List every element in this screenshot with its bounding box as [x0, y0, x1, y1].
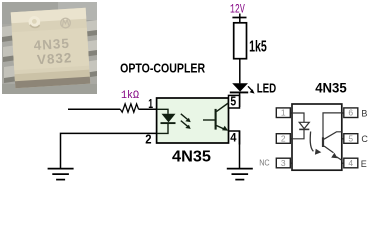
svg-text:OPTO-COUPLER: OPTO-COUPLER [120, 60, 205, 75]
dimple [28, 16, 40, 28]
right pins [82, 20, 97, 75]
phototransistor inside DIP [323, 113, 342, 138]
pin 2 box [276, 134, 290, 144]
svg-text:6: 6 [348, 108, 353, 118]
light arrow (curved) inside DIP [310, 132, 313, 152]
resistor R1 1k5 [234, 23, 247, 59]
LED inside opto [162, 114, 176, 123]
phototransistor inside opto [203, 119, 215, 121]
wire 12V to resistor [239, 14, 241, 24]
LED inside DIP [292, 113, 304, 122]
LED pointer arrow [248, 86, 252, 90]
svg-text:12V: 12V [230, 2, 245, 16]
pin 5 box [344, 134, 358, 144]
svg-text:1: 1 [281, 108, 286, 118]
svg-text:E: E [361, 159, 367, 169]
wire LED to pin 5 [239, 93, 241, 107]
svg-text:1k5: 1k5 [249, 39, 267, 56]
ground (left) [48, 168, 74, 170]
wire inside box pin1 to LED [157, 109, 168, 114]
svg-text:C: C [361, 134, 368, 144]
motorola logo [60, 18, 70, 28]
wire node in to resistor 1k [68, 108, 120, 110]
svg-text:3: 3 [281, 158, 286, 168]
pin 5 square [229, 95, 240, 108]
photo of 4N35 DIP package [2, 2, 97, 94]
power T-bar [232, 17, 246, 19]
pin 4 box [344, 158, 358, 168]
DIP package outline [292, 104, 342, 170]
svg-text:B: B [361, 109, 367, 119]
pin 3 box [276, 158, 290, 168]
wire pin2 to ground [61, 133, 157, 168]
pin 6 box [344, 108, 358, 118]
pin 1 box [276, 108, 290, 118]
wire resistor to pin 1 [139, 108, 157, 110]
svg-text:1kΩ: 1kΩ [121, 90, 139, 102]
wire pin4 to ground [239, 131, 241, 168]
svg-text:4N35: 4N35 [172, 148, 211, 165]
light arrows inside opto [181, 114, 188, 120]
chip body [11, 8, 90, 88]
left pins [2, 25, 18, 80]
LED D1 [232, 83, 248, 91]
svg-text:2: 2 [281, 134, 286, 144]
opto-coupler U1 4N35 symbol box [157, 98, 229, 143]
svg-text:5: 5 [230, 94, 236, 109]
svg-text:V832: V832 [36, 50, 72, 67]
svg-text:NC: NC [259, 157, 270, 167]
svg-text:4: 4 [230, 131, 236, 145]
wire resistor to LED [239, 59, 241, 84]
pin 4 square [229, 131, 240, 145]
svg-text:LED: LED [257, 81, 277, 96]
svg-text:4N35: 4N35 [315, 81, 347, 96]
ground (right) [227, 168, 253, 170]
svg-text:4: 4 [348, 158, 353, 168]
resistor R2 1k zigzag [120, 104, 138, 112]
svg-text:5: 5 [348, 134, 353, 144]
